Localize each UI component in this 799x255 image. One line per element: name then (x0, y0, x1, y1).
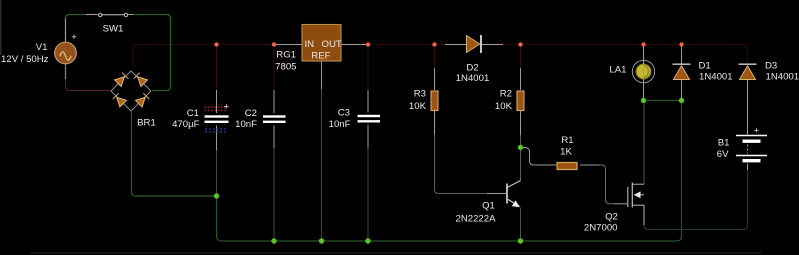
svg-text:7805: 7805 (275, 62, 296, 73)
svg-text:+: + (223, 102, 229, 113)
svg-text:C3: C3 (338, 108, 350, 119)
wire R3 bottom to Q1 base (434, 111, 436, 135)
wire Q2 drain lead (643, 104, 645, 185)
svg-text:RG1: RG1 (276, 50, 296, 61)
svg-text:SW1: SW1 (103, 24, 124, 35)
node C3-ground (365, 238, 370, 243)
node bus-D1 (679, 42, 683, 46)
node D2-R2 (518, 42, 522, 46)
resistor R1 (557, 163, 577, 170)
node RG1-C3 (366, 42, 370, 46)
resistor R3 (431, 91, 438, 111)
svg-text:6V: 6V (717, 149, 729, 160)
svg-text:10K: 10K (495, 101, 513, 112)
svg-text:10nF: 10nF (235, 119, 257, 130)
wire RG1 REF pin down (321, 62, 323, 90)
wire ground bus bottom (green) (217, 101, 682, 242)
svg-text:Q1: Q1 (482, 201, 495, 212)
wire RG1 input pin (276, 44, 302, 46)
svg-text:1K: 1K (560, 147, 572, 158)
svg-text:D2: D2 (466, 62, 478, 73)
node bus-LA1 (641, 42, 645, 46)
wire SW1 left lead (86, 14, 98, 16)
node D1-ground (679, 98, 684, 103)
wire node to R1 left (523, 148, 556, 166)
switch SW1 (99, 13, 128, 16)
node bus-C1 (214, 42, 218, 46)
capacitor C1 (electrolytic) (205, 102, 230, 133)
svg-text:2N7000: 2N7000 (584, 223, 618, 234)
wire C3 bottom lead (367, 125, 369, 149)
regulator RG1 7805 (302, 25, 342, 62)
node D2-R3 (432, 42, 436, 46)
svg-text:R1: R1 (561, 135, 573, 146)
lamp LA1 (632, 60, 654, 82)
wire C2 top lead (273, 47, 275, 91)
wire edge artifact left (0, 0, 2, 55)
resistor R2 (517, 91, 524, 111)
svg-text:C1: C1 (187, 108, 199, 119)
svg-text:B1: B1 (718, 138, 730, 149)
wire V1 bottom to BR1 left corner (dark red) (66, 79, 111, 91)
wire D1 top lead (681, 47, 683, 64)
node C2-ground (271, 238, 276, 243)
wire faint bottom border (30, 252, 762, 254)
svg-text:1N4001: 1N4001 (699, 72, 733, 83)
svg-text:V1: V1 (36, 42, 48, 53)
capacitor C3 (358, 115, 381, 123)
svg-text:10K: 10K (409, 101, 427, 112)
wire Q1 emitter lead (520, 208, 522, 239)
wire R3 top lead (434, 47, 436, 69)
diode D3 (739, 64, 757, 79)
svg-text:12V / 50Hz: 12V / 50Hz (1, 54, 49, 65)
junction node dots (green, ground net) (214, 98, 684, 244)
wire R2 top lead (520, 47, 522, 69)
wire R2 bottom lead (520, 111, 522, 135)
diode D2 (467, 35, 482, 53)
node REF-ground (319, 238, 324, 243)
svg-text:+: + (71, 32, 77, 43)
svg-text:OUT: OUT (322, 39, 342, 50)
wire D1 bottom lead (681, 80, 683, 98)
junction node dots (red, positive bus) (214, 42, 683, 46)
wire V1 top lead (65, 17, 67, 43)
svg-text:+: + (754, 126, 760, 137)
wire main positive bus (dark red, y=44) (133, 45, 748, 68)
svg-text:LA1: LA1 (609, 65, 626, 76)
voltage source V1 (55, 42, 77, 64)
node bus-C2/RG1 (272, 42, 276, 46)
wire Q2 gate lead (613, 203, 628, 205)
transistor Q1 2N2222A (507, 181, 521, 208)
svg-text:C2: C2 (245, 108, 257, 119)
node Q1 emitter-ground (518, 238, 523, 243)
svg-text:D1: D1 (699, 61, 711, 72)
wire D2 cathode lead (482, 44, 503, 46)
wire D3 bottom to B1 plus (747, 80, 749, 135)
wire V1 bottom lead (65, 64, 67, 80)
svg-text:2N2222A: 2N2222A (455, 214, 496, 225)
wire R1 to Q2 gate (green) (580, 164, 599, 166)
transistor Q2 2N7000 (628, 183, 644, 208)
svg-text:BR1: BR1 (137, 118, 156, 129)
node R2-Q1 collector (518, 145, 523, 150)
wire C2 bottom lead (273, 126, 275, 149)
bridge rectifier BR1 (111, 71, 151, 111)
wire D2 anode lead (445, 44, 466, 46)
wire SW1 right lead (128, 14, 133, 16)
wire C3 top lead (367, 47, 369, 91)
svg-text:Q2: Q2 (605, 212, 618, 223)
battery B1 (736, 136, 767, 163)
wire Q1 collector lead (520, 150, 522, 181)
svg-text:R3: R3 (414, 89, 426, 100)
wire C1 bottom lead (216, 126, 218, 151)
svg-text:10nF: 10nF (329, 119, 351, 130)
wire B1 minus to Q2 source (dark green) (644, 168, 748, 230)
capacitor C2 (263, 115, 286, 123)
svg-text:R2: R2 (500, 89, 512, 100)
diode D1 (673, 64, 691, 79)
wire C1 top lead (216, 47, 218, 91)
wire LA1 bottom lead (643, 83, 645, 99)
svg-text:IN: IN (305, 39, 315, 50)
wire RG1 output pin (341, 44, 366, 46)
svg-text:470µF: 470µF (172, 119, 200, 130)
wire Q2 source lead (643, 205, 645, 225)
svg-text:REF: REF (311, 51, 330, 62)
wire LA1/D1 bottom link (green) (644, 100, 682, 102)
wire BR1 bottom to ground node (green) (132, 112, 217, 197)
wire LA1 top lead (643, 47, 645, 61)
svg-text:1N4001: 1N4001 (766, 72, 799, 83)
node LA1-Q2 drain (641, 98, 646, 103)
node C1-ground (214, 193, 219, 198)
wire SW1 to BR1 right corner (green) (134, 15, 171, 91)
wire V1 top corner to SW1 (green) (66, 15, 87, 19)
wire B1 bottom lead (747, 164, 749, 171)
svg-text:D3: D3 (765, 61, 777, 72)
svg-text:1N4001: 1N4001 (456, 73, 490, 84)
